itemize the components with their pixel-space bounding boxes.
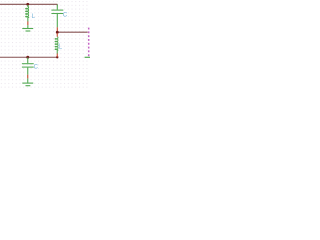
wire net N1 top horizontal — [0, 3, 57, 5]
svg-text:L: L — [32, 13, 36, 20]
ground GND1 — [22, 25, 33, 31]
wire net N3 middle-right horizontal — [57, 31, 87, 33]
capacitor C1 — [51, 5, 63, 28]
capacitor C2 — [22, 58, 34, 75]
pin of L2 (top) — [56, 33, 58, 37]
pin of L2 (bottom) — [56, 54, 58, 58]
inductor L1 — [26, 5, 29, 22]
pin of C1 (top) — [56, 4, 58, 5]
junction J4 — [56, 56, 58, 58]
svg-text:L: L — [58, 44, 62, 51]
pin of C2 (bottom) — [27, 75, 29, 79]
svg-text:C: C — [63, 12, 68, 19]
ground GND2 — [22, 78, 33, 85]
junction J1 — [26, 3, 29, 6]
svg-text:C: C — [34, 65, 39, 71]
net tie dashed magenta — [88, 28, 90, 58]
junction J3 — [26, 56, 29, 59]
pin of C1 (bottom) — [56, 27, 58, 31]
wire net N4 bottom-right green stub — [85, 56, 90, 58]
pin of L1 (bottom) — [27, 21, 29, 25]
junction J2 — [56, 31, 59, 34]
wire net N2 middle-left horizontal — [0, 56, 57, 58]
background — [0, 0, 90, 90]
